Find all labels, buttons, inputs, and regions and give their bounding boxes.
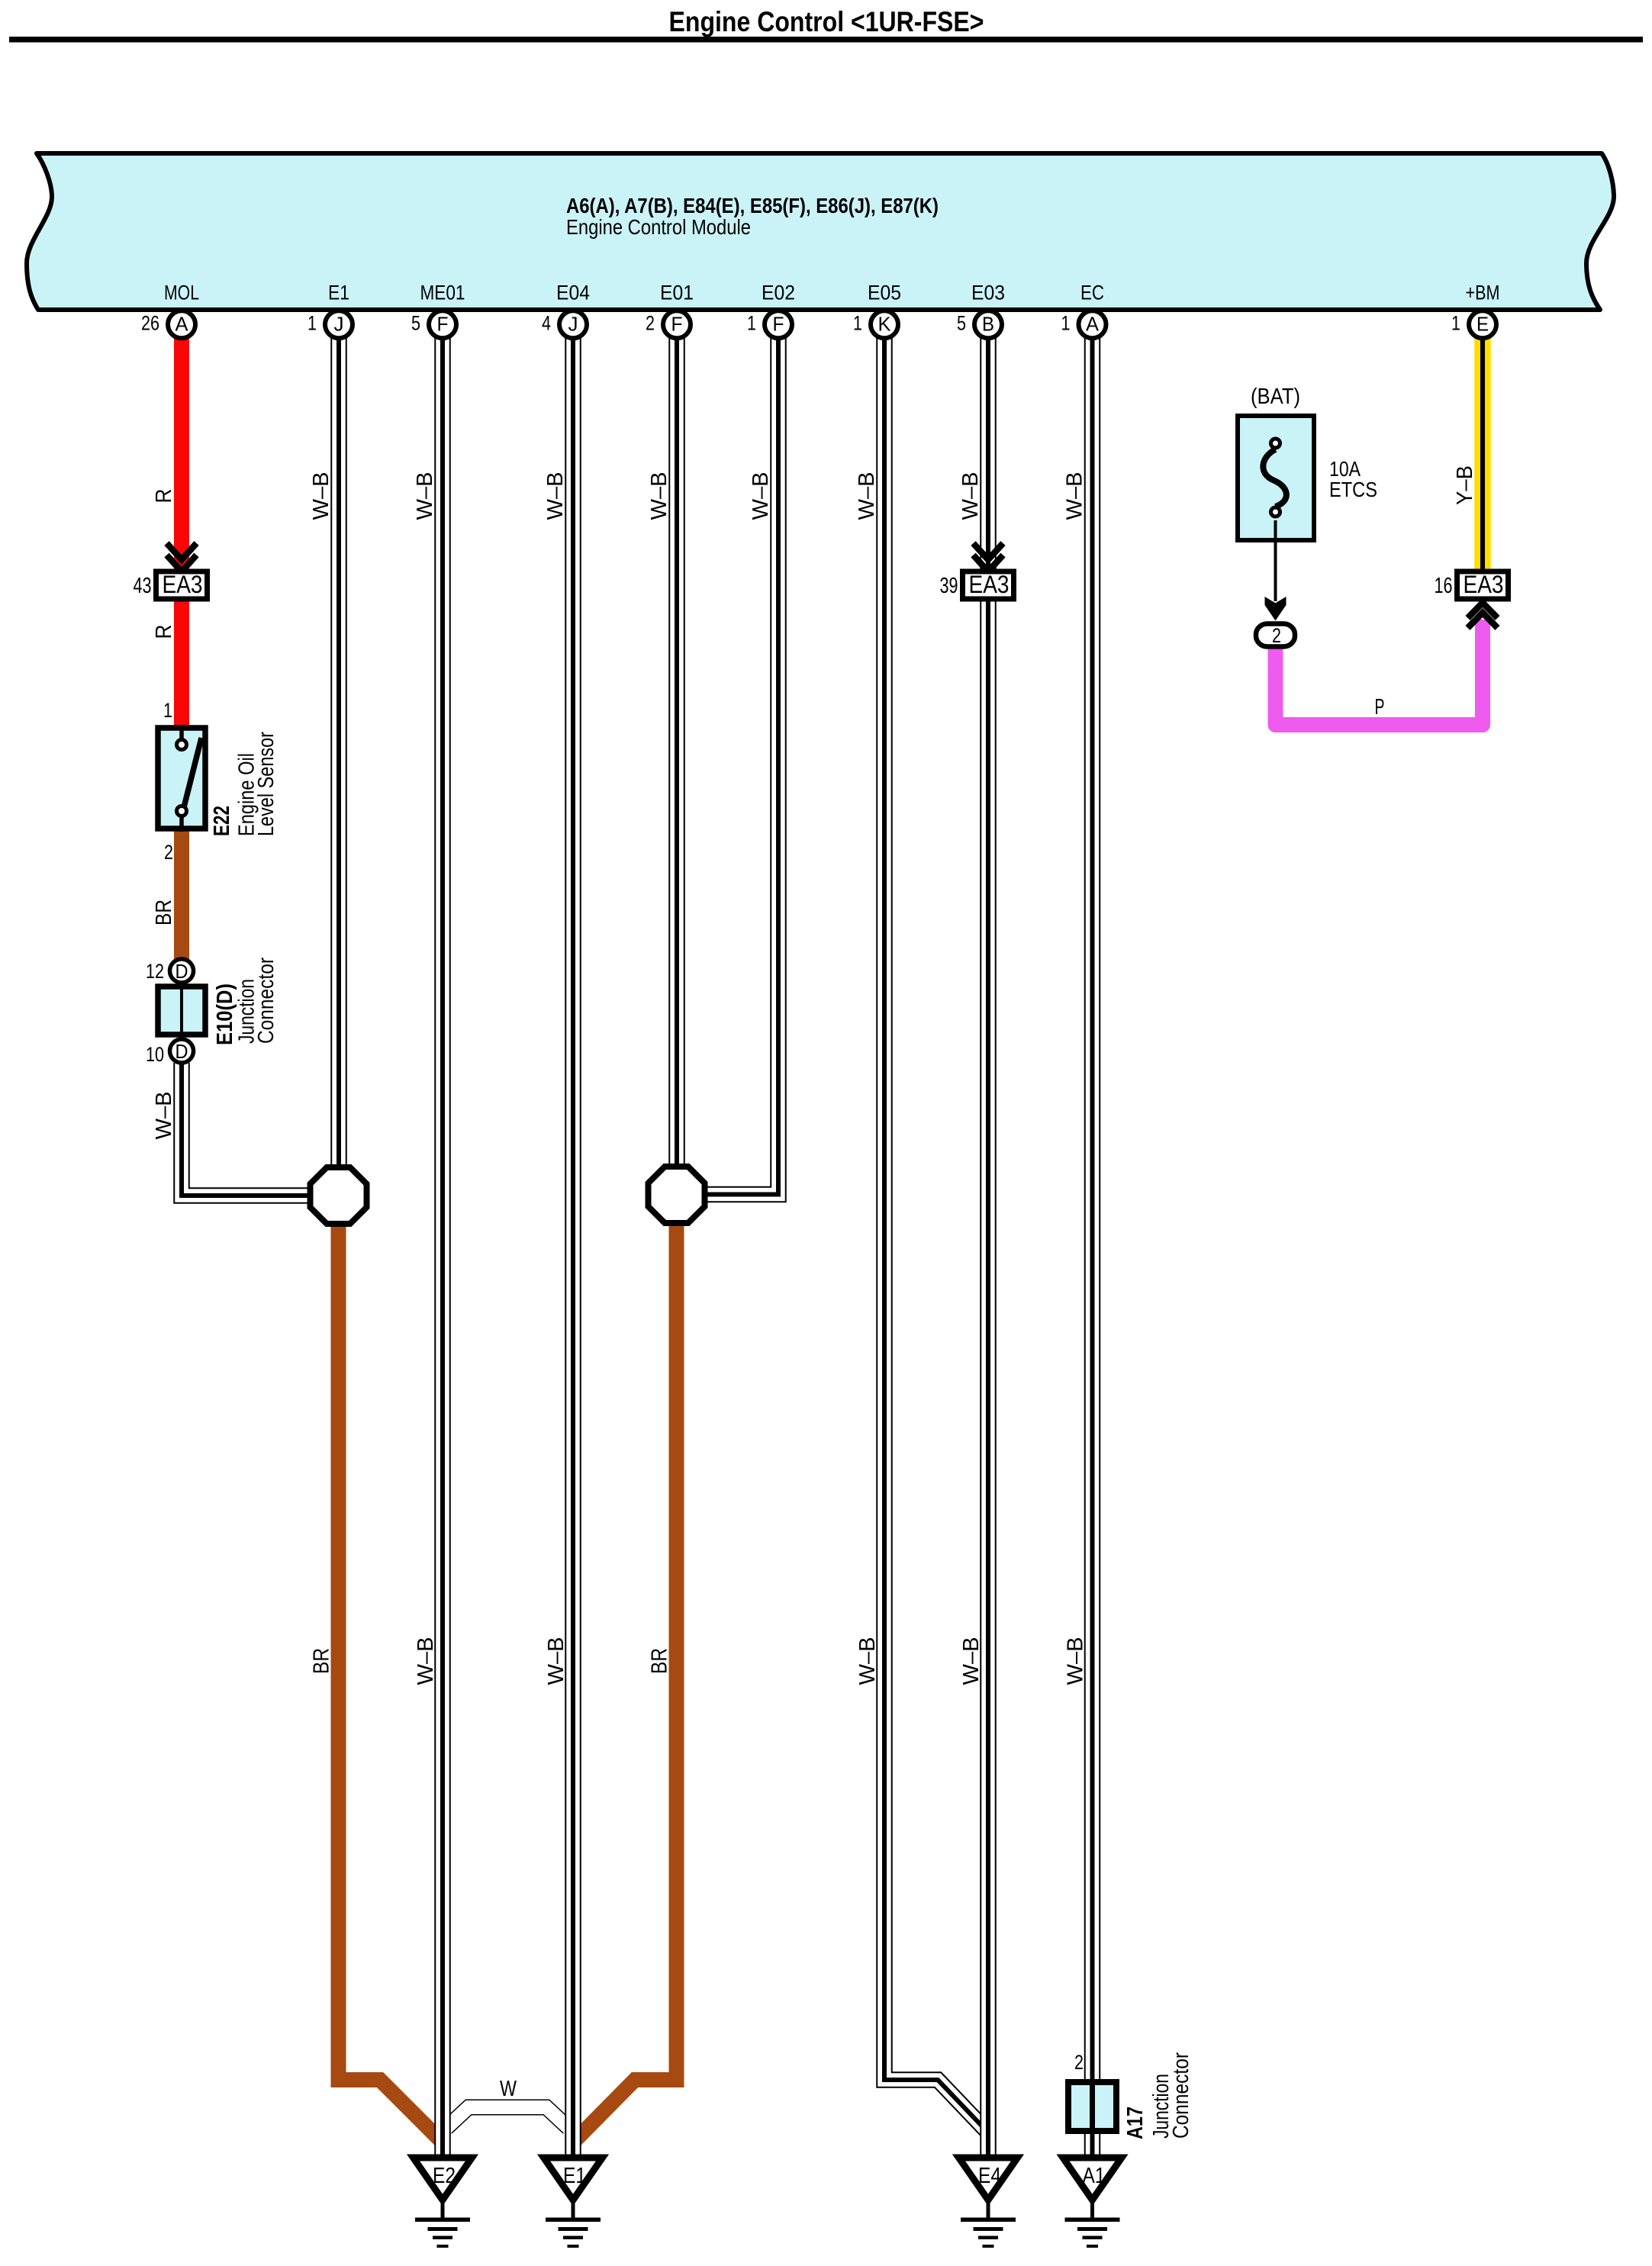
arrowhead into circle 2 [1265,597,1286,621]
splice J2 octagon [649,1167,705,1223]
svg-text:E03: E03 [971,282,1005,304]
svg-text:E10(D): E10(D) [213,983,237,1045]
connector EA3 pin 39 [940,571,1014,599]
svg-text:5: 5 [957,312,966,335]
svg-text:K: K [878,313,892,336]
svg-text:1: 1 [163,699,172,722]
wire R connector EA3 to E22 pin 1 [174,600,189,726]
svg-text:EA3: EA3 [969,571,1010,598]
svg-text:A: A [1086,313,1100,336]
svg-text:EA3: EA3 [1464,571,1504,598]
svg-text:E04: E04 [556,282,590,304]
connector EA3 pin 43 [134,571,208,599]
wire W-B pin E01 to splice J2 [668,336,685,1178]
svg-text:E1: E1 [328,282,349,304]
wire W-B pin E1 to splice J1 [330,336,347,1179]
ground E4 [959,2158,1018,2248]
svg-text:E05: E05 [868,282,901,304]
ECM module box (A6/A7/E84/E85/E86/E87 Engine Control Module) [27,153,1614,310]
svg-text:W–B: W–B [543,472,568,520]
double chevron into EA3 pin 43 [167,543,197,571]
wire W-B pin E04 to ground E1 [565,336,581,2156]
wire R pin MOL to connector EA3 pin 43 [174,336,189,570]
svg-text:W: W [500,2077,517,2101]
svg-text:ETCS: ETCS [1329,478,1377,501]
svg-text:Connector: Connector [1169,2052,1193,2139]
E10 pin 12 circle D [170,959,194,983]
svg-text:ME01: ME01 [420,282,465,304]
svg-text:P: P [1375,695,1385,719]
wire W-B pin E03 to ground E4 [980,336,997,2156]
svg-text:10: 10 [146,1043,164,1066]
double chevron from P wire into EA3 pin 16 [1468,603,1498,628]
ground E1 [544,2158,603,2248]
junction connector E10(D) box [158,983,205,1038]
connector EA3 pin 16 [1435,571,1509,599]
ECM pin E1 1(J) [308,282,353,339]
wire P from circuit circle 2 to connector EA3 pin 16 [1276,620,1483,725]
E10 pin 10 circle D [170,1039,194,1063]
svg-text:BR: BR [648,1648,672,1674]
svg-text:+BM: +BM [1466,282,1500,304]
svg-text:1: 1 [1061,312,1071,335]
svg-text:D: D [176,960,188,983]
svg-text:12: 12 [146,960,164,983]
svg-text:E1: E1 [563,2164,586,2188]
svg-text:5: 5 [411,312,420,335]
svg-text:1: 1 [853,312,862,335]
svg-text:E22: E22 [210,806,234,836]
ECM pin E01 2(F) [646,282,694,339]
double chevron into EA3 pin 39 [974,543,1003,571]
svg-text:4: 4 [542,312,551,335]
svg-text:Engine Control Module: Engine Control Module [566,215,751,239]
fuse lead line [1274,520,1277,601]
wire W-B junction E10 pin 10 to splice J1 [182,1063,317,1196]
svg-text:R: R [152,625,176,639]
svg-text:F: F [437,313,449,336]
svg-text:Level Sensor: Level Sensor [254,732,279,836]
svg-text:BR: BR [152,900,176,925]
circuit circle 2 [1256,624,1295,648]
ECM pin +BM 1(E) [1451,282,1500,339]
svg-text:2: 2 [646,312,655,335]
wire W jog between E2 and E1 ground leads [446,2107,568,2128]
svg-text:J: J [334,313,344,336]
engine oil level sensor E22 box [158,725,205,832]
svg-text:W–B: W–B [414,1637,438,1685]
svg-text:A17: A17 [1123,2107,1148,2139]
svg-text:Y–B: Y–B [1453,465,1477,505]
svg-text:W–B: W–B [152,1092,176,1140]
svg-text:J: J [568,313,578,336]
svg-text:W–B: W–B [749,472,773,520]
splice J1 octagon [311,1167,367,1224]
ECM pin E04 4(J) [542,282,590,339]
svg-text:B: B [982,313,994,336]
junction connector A17 box [1068,2079,1116,2134]
svg-text:Connector: Connector [254,958,279,1044]
wire BR from splice J2 to E1 ground lead [575,1217,677,2141]
svg-text:2: 2 [1272,624,1281,647]
svg-text:A: A [176,313,189,336]
svg-text:W–B: W–B [1064,1637,1088,1685]
wire W-B pin E02 to splice J2 [698,336,778,1195]
ECM pin E05 1(K) [853,282,901,339]
wire Y-B pin +BM to connector EA3 pin 16 [1474,336,1491,571]
ground A1 [1063,2158,1122,2248]
svg-text:1: 1 [1451,312,1460,335]
svg-text:W–B: W–B [413,472,437,520]
svg-text:F: F [671,313,683,336]
svg-text:W–B: W–B [1063,472,1087,520]
wire W-B pin EC to ground A1 [1084,336,1101,2156]
svg-text:E4: E4 [978,2164,1001,2188]
svg-text:W–B: W–B [959,1637,984,1685]
svg-text:1: 1 [308,312,317,335]
svg-text:43: 43 [134,574,152,598]
wire BR E22 pin 2 to junction E10 pin 12 [174,830,189,959]
svg-text:W–B: W–B [544,1637,568,1685]
svg-text:1: 1 [747,312,756,335]
svg-text:A1: A1 [1083,2164,1106,2188]
svg-text:W–B: W–B [309,472,333,520]
svg-text:EC: EC [1080,282,1104,304]
svg-text:W–B: W–B [647,472,671,520]
svg-text:W–B: W–B [855,1637,880,1685]
svg-text:2: 2 [1074,2051,1084,2074]
svg-text:F: F [773,313,784,336]
ECM pin EC 1(A) [1061,282,1106,339]
svg-text:E01: E01 [660,282,694,304]
wire BR from splice J1 to E2 ground lead [339,1217,442,2141]
svg-text:W–B: W–B [958,472,983,520]
svg-text:(BAT): (BAT) [1251,385,1300,409]
svg-text:D: D [176,1040,188,1063]
svg-text:26: 26 [141,312,159,335]
ECM pin E03 5(B) [957,282,1005,339]
svg-text:16: 16 [1435,574,1453,598]
svg-text:39: 39 [940,574,958,598]
fuse 10A ETCS (BAT) box [1238,416,1314,540]
ECM pin E02 1(F) [747,282,795,339]
svg-text:EA3: EA3 [163,571,203,598]
wire W-B pin ME01 to ground E2 [434,336,451,2156]
ECM pin ME01 5(F) [411,282,465,339]
svg-text:E: E [1476,313,1489,336]
svg-text:Engine Control <1UR-FSE>: Engine Control <1UR-FSE> [669,6,984,37]
svg-text:R: R [152,489,176,504]
ECM pin MOL 26(A) [141,282,199,339]
svg-text:W–B: W–B [855,472,879,520]
svg-text:E02: E02 [762,282,795,304]
svg-text:BR: BR [310,1648,334,1674]
title rule [9,37,1643,43]
svg-text:MOL: MOL [164,282,199,304]
wire W-B pin E05 to E4 ground merge [884,336,987,2131]
ground E2 [414,2158,472,2248]
svg-text:2: 2 [164,841,173,864]
svg-text:E2: E2 [433,2164,456,2188]
svg-text:A6(A), A7(B), E84(E), E85(F),: A6(A), A7(B), E84(E), E85(F), E86(J), E8… [566,194,939,217]
